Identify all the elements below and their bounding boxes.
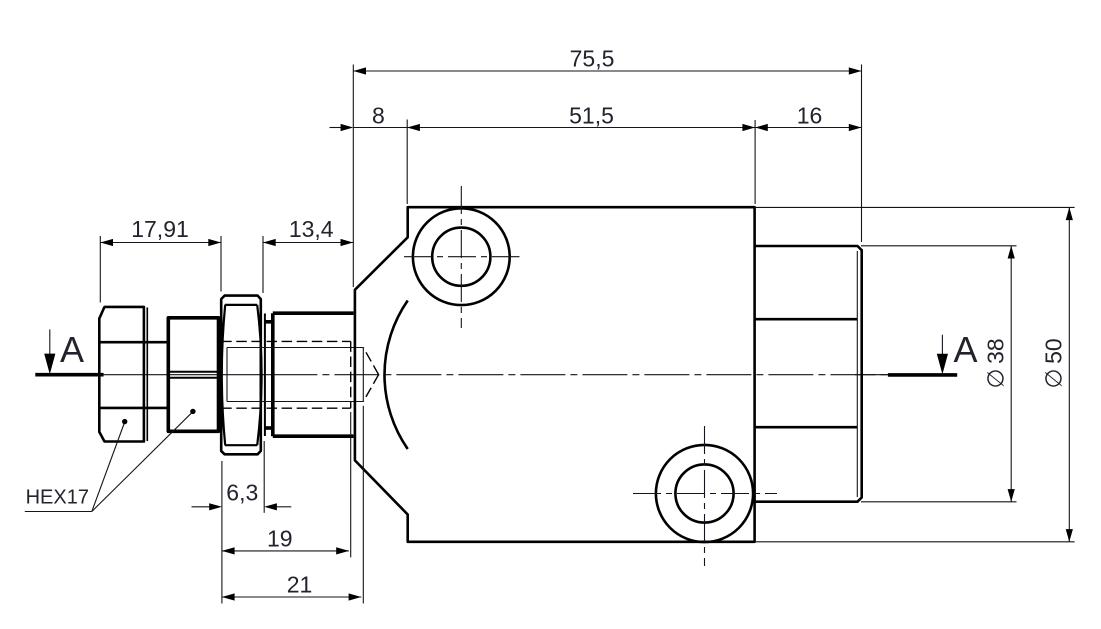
svg-text:51,5: 51,5 [569,103,614,129]
svg-text:75,5: 75,5 [570,46,615,72]
hex head nut 1 outline [99,307,144,442]
rear boss outline [755,246,862,502]
svg-text:A: A [60,329,84,370]
svg-text:19: 19 [267,526,293,552]
nut 3 bottom chamfer line [225,444,257,446]
nut 3 right facet arc [257,305,261,445]
hidden drill cone [363,348,378,402]
nut 1 facet lines and neck [100,342,168,408]
locknut 2 outline [168,318,218,432]
svg-text:A: A [953,329,977,370]
dimension 16 [755,103,861,132]
locknut 2 facet lines [168,372,218,378]
nut 3 left facet arc [222,305,225,445]
dimension 19 [222,412,351,557]
nut 1 washer face line [146,308,148,442]
boss chamfer line [856,251,858,497]
svg-text:13,4: 13,4 [289,216,334,242]
boss spigot lines [755,319,858,427]
dimension 21 [222,406,363,604]
svg-text:8: 8 [372,103,385,129]
main body outline [355,207,755,542]
threaded stem [273,313,354,436]
body concave transition arc [384,301,407,450]
main horizontal centerline [104,374,888,376]
dimension 17,91 [100,216,221,303]
top port counterbore circle [413,208,510,305]
top port hole circle [432,228,490,286]
dimension 8 [330,103,756,205]
hex nut 3 outline [221,296,261,455]
top port centerlines [404,186,520,328]
bottom port hole circle [675,464,733,522]
section arrow A left [44,329,55,374]
svg-text:∅ 50: ∅ 50 [1041,338,1067,388]
section line A right [888,373,957,377]
section line A left [35,373,103,377]
thread minor diameter thin lines [227,348,363,402]
hidden thread lines [221,341,351,408]
dimension diameter 38 [861,246,1017,502]
svg-text:∅ 38: ∅ 38 [983,338,1009,388]
bottom port centerlines [633,426,777,566]
dimension 75,5 [353,46,861,288]
svg-text:16: 16 [797,103,823,129]
section arrow A right [937,335,948,375]
dimension diameter 50 [755,207,1075,541]
svg-text:21: 21 [287,572,313,598]
nut 3 top chamfer line [225,304,257,306]
bottom port counterbore circle [656,445,753,542]
svg-text:HEX17: HEX17 [26,487,89,509]
dimension 6,3 [192,441,292,604]
svg-text:6,3: 6,3 [226,480,258,506]
svg-text:17,91: 17,91 [131,216,189,242]
dimension 51,5 [407,103,755,205]
undercut groove [264,314,273,437]
label HEX17 with leaders [25,409,196,512]
dimension 13,4 [263,216,353,293]
